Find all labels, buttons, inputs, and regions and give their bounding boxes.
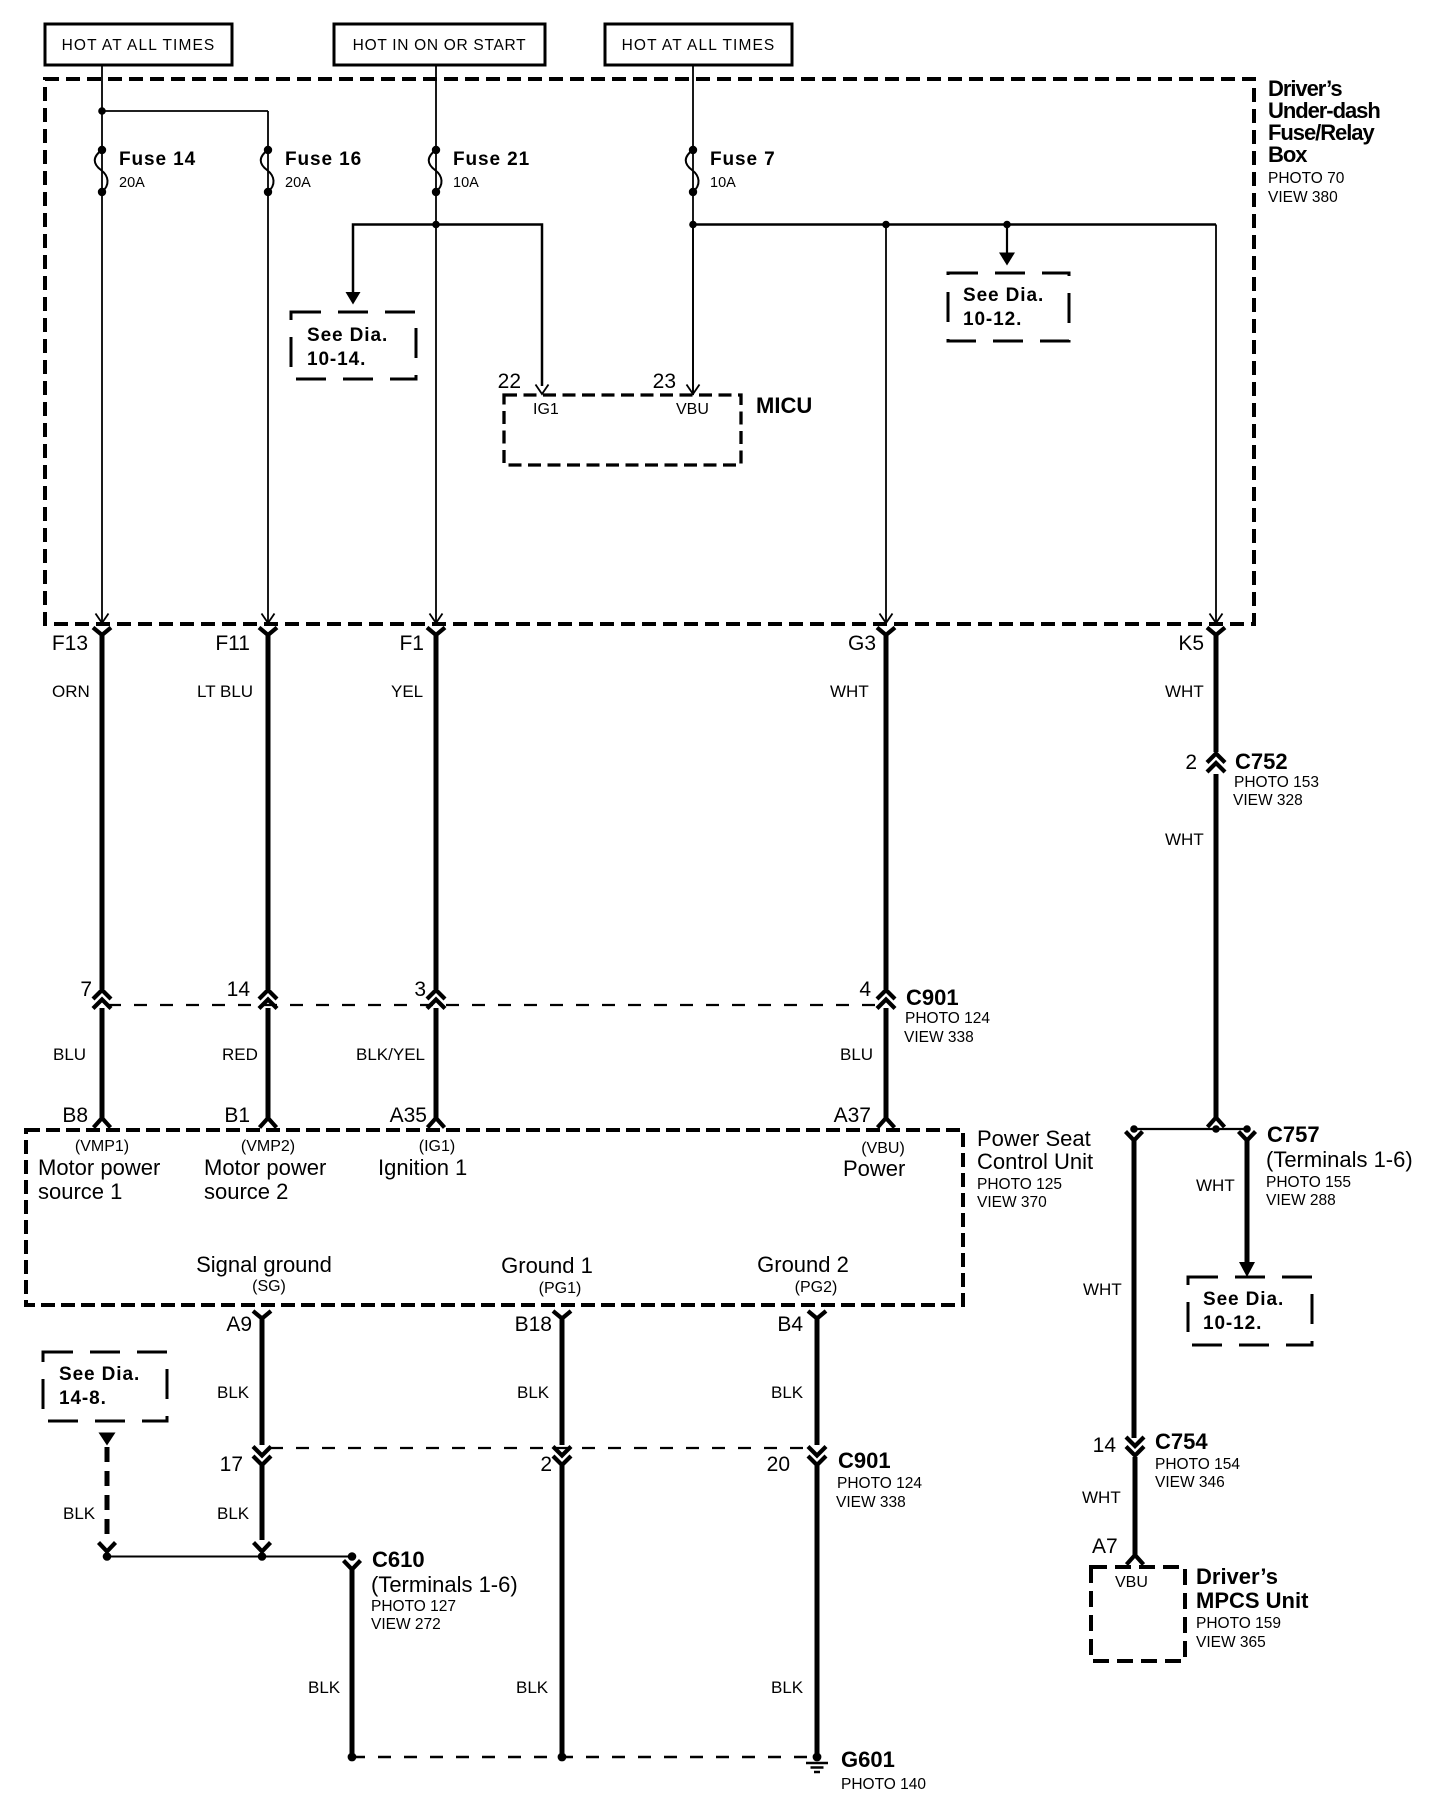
svg-text:B8: B8	[62, 1104, 88, 1127]
pin A7 into MPCS unit	[1127, 1555, 1144, 1565]
wire: VBU stub to MICU	[692, 225, 694, 396]
svg-text:(VMP1): (VMP1)	[75, 1138, 129, 1155]
svg-text:PHOTO 124: PHOTO 124	[905, 1010, 990, 1027]
wire: BLK/YEL to A35	[434, 1008, 439, 1118]
svg-text:PHOTO 154: PHOTO 154	[1155, 1456, 1240, 1473]
wire: battery feed to Fuse 7 / VBU column	[692, 65, 694, 395]
svg-text:PHOTO 125: PHOTO 125	[977, 1176, 1062, 1193]
svg-text:Driver’s: Driver’s	[1196, 1564, 1278, 1589]
See Dia. 14-8 (dashed reference box)	[43, 1352, 167, 1421]
wire: RED to B1	[266, 1008, 271, 1118]
svg-text:WHT: WHT	[1082, 1488, 1121, 1507]
node: tap to Fuse 16	[98, 107, 106, 115]
svg-text:Ground 1: Ground 1	[501, 1253, 593, 1278]
wire: WHT K5 to C752	[1214, 633, 1219, 752]
svg-text:BLK: BLK	[217, 1504, 250, 1523]
svg-text:C610: C610	[372, 1547, 425, 1572]
node: splice mid	[258, 1552, 267, 1561]
svg-text:HOT IN ON OR START: HOT IN ON OR START	[353, 37, 527, 54]
Power Seat Control Unit (dashed box)	[26, 1130, 963, 1305]
svg-text:PHOTO 124: PHOTO 124	[837, 1475, 922, 1492]
wire: BLK pin 20 to G601	[815, 1462, 820, 1757]
svg-text:A9: A9	[226, 1313, 252, 1336]
connector half C757 (left)	[1126, 1132, 1143, 1141]
fuse F21 10A	[429, 146, 530, 196]
svg-text:(PG1): (PG1)	[539, 1280, 582, 1297]
svg-text:20: 20	[767, 1453, 790, 1476]
svg-text:VIEW 346: VIEW 346	[1155, 1474, 1225, 1491]
svg-text:VIEW 328: VIEW 328	[1233, 792, 1303, 809]
node: ground bus mid	[558, 1753, 567, 1762]
svg-text:Box: Box	[1268, 142, 1308, 167]
svg-text:(Terminals 1-6): (Terminals 1-6)	[371, 1572, 518, 1597]
connector half at B4	[808, 1311, 826, 1319]
Driver's MPCS Unit (dashed box)	[1091, 1567, 1185, 1661]
svg-text:B4: B4	[777, 1313, 803, 1336]
wire: BLU to B8	[100, 1008, 105, 1118]
pin B1 into control unit	[260, 1118, 277, 1128]
node: tap to See Dia. 10-12	[1003, 221, 1011, 229]
svg-text:See Dia.: See Dia.	[963, 285, 1044, 306]
connector C901 pin 3	[427, 990, 445, 1009]
svg-text:source 2: source 2	[204, 1179, 288, 1204]
connector half at A9	[253, 1311, 271, 1319]
svg-text:See Dia.: See Dia.	[307, 325, 388, 346]
C752 label	[1233, 749, 1319, 809]
svg-text:(IG1): (IG1)	[419, 1138, 455, 1155]
fuse F7 10A	[686, 146, 776, 196]
connector half at K5	[1207, 628, 1225, 636]
wire: C757 junction bar	[1134, 1128, 1247, 1130]
connector C901 dashed line (lower)	[270, 1447, 808, 1449]
svg-text:PHOTO 159: PHOTO 159	[1196, 1615, 1281, 1632]
svg-text:4: 4	[859, 978, 871, 1001]
svg-text:10-14.: 10-14.	[307, 349, 366, 370]
arrow at fuse box exit F11	[262, 614, 275, 624]
svg-text:F11: F11	[215, 632, 250, 655]
wire: LT BLU F11 to C901 pin 14	[266, 633, 271, 989]
arrow to See Dia. 10-14	[346, 292, 361, 305]
svg-text:RED: RED	[222, 1045, 258, 1064]
wire: Fuse 21 branch to See Dia. 10-14 and MICU IG1	[353, 225, 542, 387]
wire: Fuse 16 / F11 column	[267, 111, 269, 624]
svg-text:See Dia.: See Dia.	[59, 1364, 140, 1385]
connector half C757 (right)	[1239, 1132, 1256, 1141]
svg-text:VBU: VBU	[676, 401, 709, 418]
svg-text:Fuse 7: Fuse 7	[710, 149, 776, 170]
svg-text:PHOTO 70: PHOTO 70	[1268, 170, 1345, 187]
pin A35 into control unit	[428, 1118, 445, 1128]
svg-text:PHOTO 155: PHOTO 155	[1266, 1174, 1351, 1191]
wire: WHT C752 to C757	[1214, 774, 1219, 1118]
arrow at fuse box exit F13	[96, 614, 109, 624]
svg-text:10-12.: 10-12.	[1203, 1313, 1262, 1334]
C757 label	[1266, 1122, 1413, 1209]
arrow at fuse box exit K5	[1210, 614, 1223, 624]
node: C757 mid	[1212, 1125, 1220, 1133]
svg-text:VIEW 338: VIEW 338	[836, 1494, 906, 1511]
connector half at F11	[259, 628, 277, 636]
svg-text:HOT AT ALL TIMES: HOT AT ALL TIMES	[622, 37, 776, 54]
node: splice left	[103, 1552, 112, 1561]
connector C901 pin 7	[93, 990, 111, 1009]
wire: BLK C610 to G601	[350, 1568, 355, 1757]
svg-text:(VMP2): (VMP2)	[241, 1138, 295, 1155]
svg-text:23: 23	[653, 370, 676, 393]
svg-text:Ground 2: Ground 2	[757, 1252, 849, 1277]
svg-text:2: 2	[1185, 751, 1197, 774]
arrow at fuse box exit F1	[430, 614, 443, 624]
svg-text:K5: K5	[1178, 632, 1204, 655]
node: C757 left	[1130, 1125, 1138, 1133]
svg-text:IG1: IG1	[533, 401, 559, 418]
svg-text:(Terminals 1-6): (Terminals 1-6)	[1266, 1147, 1413, 1172]
svg-text:Control Unit: Control Unit	[977, 1149, 1093, 1174]
fuse box label	[1268, 76, 1380, 206]
node: splice at C610	[348, 1552, 357, 1561]
svg-text:10-12.: 10-12.	[963, 309, 1022, 330]
svg-text:(VBU): (VBU)	[861, 1140, 905, 1157]
svg-text:MPCS Unit: MPCS Unit	[1196, 1588, 1309, 1613]
svg-text:Ignition 1: Ignition 1	[378, 1155, 467, 1180]
connector C901 pin 17	[253, 1447, 271, 1466]
power label box: HOT IN ON OR START	[334, 24, 545, 65]
svg-text:MICU: MICU	[756, 393, 812, 418]
svg-text:2: 2	[540, 1453, 552, 1476]
connector C754 pin 14	[1126, 1437, 1144, 1456]
wire: Fuse 7 branch bus to G3 / See Dia. 10-12 / K5	[693, 223, 1216, 226]
svg-text:Power Seat: Power Seat	[977, 1126, 1091, 1151]
wire: K5 column inside fuse box	[1215, 225, 1217, 625]
wire: ORN F13 to C901 pin 7	[100, 633, 105, 989]
svg-text:VIEW 272: VIEW 272	[371, 1616, 441, 1633]
C901 label (upper)	[904, 985, 990, 1046]
G601 label	[841, 1747, 926, 1793]
connector half at splice (A9 branch)	[254, 1543, 271, 1552]
connector C752 pin 2	[1207, 754, 1225, 773]
svg-text:22: 22	[498, 370, 521, 393]
wire: BLK B4 to C901 pin 20	[815, 1316, 820, 1445]
connector half at F1	[427, 628, 445, 636]
svg-text:14: 14	[227, 978, 251, 1001]
svg-text:VIEW 338: VIEW 338	[904, 1029, 974, 1046]
wire: BLU to A37	[884, 1008, 889, 1118]
wire: splice bus to C610	[107, 1556, 352, 1558]
svg-text:PHOTO 127: PHOTO 127	[371, 1598, 456, 1615]
wire: BLK B18 to C901 pin 2	[560, 1316, 565, 1445]
svg-text:10A: 10A	[710, 175, 736, 191]
arrow at fuse box exit G3	[880, 614, 893, 624]
fuse F16 20A	[261, 146, 362, 196]
svg-text:BLK: BLK	[516, 1678, 549, 1697]
wire: BLK A9 to C901 pin 17	[260, 1316, 265, 1445]
wire: WHT to See Dia. 10-12	[1245, 1139, 1250, 1263]
svg-text:G601: G601	[841, 1747, 895, 1772]
svg-text:YEL: YEL	[391, 682, 423, 701]
svg-text:BLU: BLU	[53, 1045, 86, 1064]
connector C610	[344, 1561, 361, 1570]
pin B8 into control unit	[94, 1118, 111, 1128]
wire: YEL F1 to C901 pin 3	[434, 633, 439, 989]
connector C901 pin 14	[259, 990, 277, 1009]
node: Fuse 7 junction	[689, 221, 697, 229]
svg-text:C901: C901	[838, 1448, 891, 1473]
svg-text:BLK/YEL: BLK/YEL	[356, 1045, 425, 1064]
svg-text:14: 14	[1093, 1434, 1117, 1457]
svg-text:WHT: WHT	[1165, 682, 1204, 701]
pin A37 into control unit	[878, 1118, 895, 1128]
wire: WHT C757 to C754	[1132, 1139, 1137, 1438]
See Dia. 10-12 (dashed reference box, lower)	[1188, 1277, 1312, 1345]
arrow from See Dia. 14-8	[99, 1433, 116, 1446]
svg-text:3: 3	[414, 978, 426, 1001]
C901 label (lower)	[836, 1448, 922, 1511]
MICU (dashed box)	[504, 395, 741, 465]
node: C757 right	[1243, 1125, 1251, 1133]
svg-text:7: 7	[80, 978, 92, 1001]
svg-text:See Dia.: See Dia.	[1203, 1289, 1284, 1310]
pin into C757 splice	[1208, 1118, 1225, 1128]
svg-text:WHT: WHT	[1165, 830, 1204, 849]
MPCS unit label	[1196, 1564, 1309, 1651]
svg-text:BLK: BLK	[217, 1383, 250, 1402]
node: ground bus left	[348, 1753, 357, 1762]
wire: G3 column inside fuse box	[885, 225, 887, 625]
Driver's Under-dash Fuse/Relay Box (dashed enclosure)	[45, 79, 1254, 624]
svg-text:14-8.: 14-8.	[59, 1388, 107, 1409]
node: tap to G3	[882, 221, 890, 229]
arrow into MICU pin 22	[536, 385, 549, 395]
fuse F14 20A	[95, 146, 196, 196]
svg-text:WHT: WHT	[830, 682, 869, 701]
connector C901 pin 4	[877, 990, 895, 1009]
connector C901 pin 20	[808, 1447, 826, 1466]
connector half at G3	[877, 628, 895, 636]
svg-text:WHT: WHT	[1083, 1280, 1122, 1299]
svg-text:C752: C752	[1235, 749, 1288, 774]
svg-text:C757: C757	[1267, 1122, 1320, 1147]
svg-text:F1: F1	[399, 632, 424, 655]
wire: WHT G3 to C901 pin 4	[884, 633, 889, 989]
svg-text:20A: 20A	[285, 175, 311, 191]
svg-text:B18: B18	[515, 1313, 552, 1336]
ground bus (dashed)	[352, 1756, 817, 1758]
svg-text:VIEW 380: VIEW 380	[1268, 189, 1338, 206]
svg-text:B1: B1	[224, 1104, 250, 1127]
svg-text:C901: C901	[906, 985, 959, 1010]
wire: WHT C754 to MPCS A7	[1133, 1457, 1138, 1556]
svg-text:BLK: BLK	[308, 1678, 341, 1697]
connector C901 pin 2	[553, 1447, 571, 1466]
wire: BLK pin 2 to G601	[560, 1462, 565, 1757]
svg-text:PHOTO 140: PHOTO 140	[841, 1776, 926, 1793]
svg-text:BLK: BLK	[517, 1383, 550, 1402]
svg-text:Fuse 16: Fuse 16	[285, 149, 362, 170]
svg-text:A35: A35	[390, 1104, 427, 1127]
svg-text:Motor power: Motor power	[38, 1155, 160, 1180]
wire: BLK dashed from See Dia. 14-8	[105, 1447, 110, 1539]
svg-text:Signal ground: Signal ground	[196, 1252, 332, 1277]
svg-text:VBU: VBU	[1115, 1574, 1148, 1591]
See Dia. 10-14 (dashed reference box)	[291, 312, 416, 379]
svg-text:Fuse 14: Fuse 14	[119, 149, 196, 170]
svg-text:F13: F13	[52, 632, 88, 655]
svg-text:Power: Power	[843, 1156, 905, 1181]
connector C901 dashed line (upper)	[108, 1004, 884, 1006]
wire: stub to See Dia. 10-12	[1006, 225, 1008, 254]
svg-text:BLK: BLK	[771, 1678, 804, 1697]
connector half at B18	[553, 1311, 571, 1319]
svg-text:VIEW 288: VIEW 288	[1266, 1192, 1336, 1209]
svg-text:BLK: BLK	[63, 1504, 96, 1523]
svg-text:A7: A7	[1092, 1535, 1118, 1558]
svg-text:PHOTO 153: PHOTO 153	[1234, 774, 1319, 791]
node: Fuse 21 branch junction	[432, 221, 440, 229]
svg-text:source 1: source 1	[38, 1179, 122, 1204]
svg-text:ORN: ORN	[52, 682, 90, 701]
svg-text:Motor power: Motor power	[204, 1155, 326, 1180]
svg-text:HOT AT ALL TIMES: HOT AT ALL TIMES	[62, 37, 216, 54]
svg-text:BLK: BLK	[771, 1383, 804, 1402]
C610 label	[371, 1547, 518, 1633]
wire: ignition feed to Fuse 21 / F1 column	[435, 65, 437, 624]
svg-text:17: 17	[220, 1453, 243, 1476]
arrow to See Dia. 10-12	[999, 253, 1015, 266]
See Dia. 10-12 (dashed reference box, top)	[948, 273, 1069, 341]
C754 label	[1155, 1429, 1240, 1491]
svg-text:A37: A37	[834, 1104, 871, 1127]
connector half at splice (left)	[99, 1543, 116, 1552]
svg-text:VIEW 370: VIEW 370	[977, 1194, 1047, 1211]
wire: jumper to Fuse 16	[102, 110, 268, 112]
wire: battery feed to Fuse 14 / F13 column	[101, 65, 103, 624]
svg-text:C754: C754	[1155, 1429, 1208, 1454]
ground G601	[806, 1753, 828, 1772]
svg-text:20A: 20A	[119, 175, 145, 191]
svg-text:BLU: BLU	[840, 1045, 873, 1064]
svg-text:LT BLU: LT BLU	[197, 682, 253, 701]
svg-text:Fuse 21: Fuse 21	[453, 149, 530, 170]
power label box: HOT AT ALL TIMES (right)	[605, 24, 792, 65]
svg-text:G3: G3	[848, 632, 876, 655]
arrow to See Dia. 10-12 (lower)	[1239, 1262, 1255, 1277]
svg-text:VIEW 365: VIEW 365	[1196, 1634, 1266, 1651]
svg-text:(SG): (SG)	[252, 1278, 286, 1295]
svg-text:(PG2): (PG2)	[795, 1279, 838, 1296]
svg-text:WHT: WHT	[1196, 1176, 1235, 1195]
wire: BLK pin 17 to splice	[260, 1462, 265, 1540]
control unit label	[977, 1126, 1093, 1211]
connector half at F13	[93, 628, 111, 636]
power label box: HOT AT ALL TIMES (left)	[45, 24, 232, 65]
svg-text:10A: 10A	[453, 175, 479, 191]
arrow into MICU pin 23	[687, 385, 700, 395]
